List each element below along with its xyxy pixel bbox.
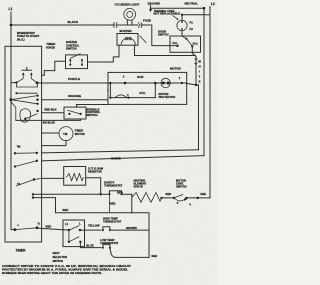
svg-text:GROUND: GROUND: [148, 1, 160, 5]
svg-text:N.C.: N.C.: [173, 41, 179, 45]
svg-text:CYLINDER LIGHT: CYLINDER LIGHT: [115, 3, 140, 7]
svg-text:RED: RED: [152, 254, 158, 258]
svg-text:BLACK: BLACK: [68, 20, 79, 24]
svg-text:MOTOR: MOTOR: [75, 132, 85, 136]
svg-text:BROWN: BROWN: [126, 226, 137, 230]
svg-text:BUZZER: BUZZER: [120, 29, 133, 33]
svg-text:RESISTOR: RESISTOR: [88, 170, 102, 174]
svg-text:L1: L1: [9, 7, 13, 11]
svg-text:RED: RED: [110, 202, 116, 206]
svg-text:MOTOR: MOTOR: [170, 66, 182, 70]
svg-text:THERMOSTAT: THERMOSTAT: [104, 184, 123, 188]
svg-text:HEAT: HEAT: [53, 251, 60, 255]
svg-text:TIMER: TIMER: [16, 248, 27, 252]
svg-text:NEUTRAL: NEUTRAL: [185, 1, 199, 5]
svg-text:RUN: RUN: [137, 75, 143, 79]
svg-text:SWITCH: SWITCH: [176, 185, 187, 189]
svg-text:L1: L1: [65, 222, 69, 226]
svg-text:WHITE: WHITE: [111, 156, 121, 160]
svg-text:(N.O.): (N.O.): [17, 38, 25, 42]
svg-text:E: E: [199, 80, 201, 84]
svg-text:TM: TM: [63, 132, 68, 136]
svg-text:ORANGE: ORANGE: [68, 94, 81, 98]
svg-text:F1: F1: [190, 20, 194, 24]
svg-text:RED: RED: [117, 191, 123, 195]
svg-text:SWITCH: SWITCH: [158, 33, 169, 37]
svg-text:YELLOW: YELLOW: [88, 224, 100, 228]
svg-text:AUX.: AUX.: [139, 91, 146, 95]
svg-text:FUSE: FUSE: [143, 18, 151, 22]
svg-text:SWITCH: SWITCH: [86, 113, 97, 117]
svg-text:W: W: [198, 60, 201, 64]
svg-text:4750 W: 4750 W: [134, 185, 144, 189]
svg-text:BK-BLUE: BK-BLUE: [43, 120, 55, 124]
svg-text:RED: RED: [166, 192, 172, 196]
svg-text:RED: RED: [46, 225, 52, 229]
svg-text:SELECTOR: SELECTOR: [53, 255, 68, 259]
svg-text:KNOB: KNOB: [46, 46, 55, 50]
svg-text:RED-BLK: RED-BLK: [45, 108, 57, 112]
svg-text:NOT REPLACEABLE: NOT REPLACEABLE: [154, 12, 181, 16]
svg-text:RED: RED: [200, 192, 206, 196]
svg-text:PURPLE: PURPLE: [68, 77, 80, 81]
svg-text:BLUE: BLUE: [86, 243, 94, 247]
svg-text:H: H: [199, 65, 201, 69]
svg-text:PROTECTOR: PROTECTOR: [159, 95, 176, 99]
svg-text:SWITCH: SWITCH: [53, 259, 64, 263]
svg-text:SWITCH: SWITCH: [66, 47, 77, 51]
svg-text:R: R: [38, 221, 40, 225]
svg-text:NUMBERS WHEN WRITING ABOUT THI: NUMBERS WHEN WRITING ABOUT THIS DRYER OR…: [2, 271, 102, 275]
svg-text:N.O.: N.O.: [193, 42, 199, 46]
svg-text:T: T: [199, 75, 201, 79]
svg-text:THERMOSTAT: THERMOSTAT: [103, 220, 122, 224]
svg-text:F2: F2: [190, 27, 194, 31]
svg-text:RED: RED: [63, 208, 69, 212]
svg-text:L2: L2: [211, 2, 215, 6]
